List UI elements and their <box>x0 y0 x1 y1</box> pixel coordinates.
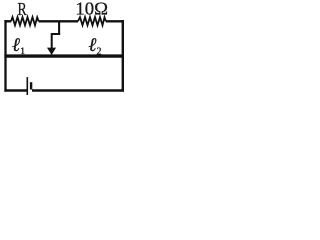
wire bottom-right segment <box>32 89 124 92</box>
battery short plate <box>30 82 32 89</box>
svg-text:ℓ: ℓ <box>12 35 20 56</box>
svg-text:ℓ: ℓ <box>88 35 96 56</box>
wire arrow shaft <box>51 33 53 48</box>
wire left vertical <box>4 20 6 92</box>
svg-text:10Ω: 10Ω <box>75 0 108 18</box>
battery long plate <box>26 77 28 95</box>
wire top-right segment <box>106 20 124 22</box>
wire top-middle segment <box>39 20 78 22</box>
arrowhead pointing to middle wire <box>47 48 56 55</box>
svg-text:R: R <box>18 0 28 19</box>
svg-text:1: 1 <box>20 47 25 57</box>
wire right vertical <box>122 20 124 92</box>
resistor R <box>11 17 39 25</box>
wire top-left segment <box>4 20 11 22</box>
wire bottom-left segment <box>4 89 26 92</box>
resistor 10ohm <box>78 17 106 25</box>
wire middle horizontal <box>4 54 124 57</box>
wire tap horizontal jog <box>52 33 60 35</box>
svg-text:2: 2 <box>97 46 102 57</box>
wire tap vertical drop <box>58 21 60 35</box>
